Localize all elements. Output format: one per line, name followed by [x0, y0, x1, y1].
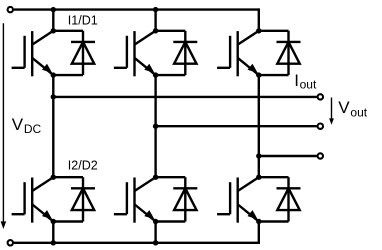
- svg-text:out: out: [300, 78, 317, 92]
- svg-text:I2/D2: I2/D2: [68, 159, 98, 173]
- svg-text:out: out: [350, 105, 367, 119]
- svg-text:V: V: [338, 98, 350, 117]
- svg-text:I1/D1: I1/D1: [68, 14, 98, 28]
- svg-text:I: I: [294, 71, 299, 90]
- svg-text:V: V: [12, 115, 24, 134]
- svg-text:DC: DC: [24, 122, 42, 136]
